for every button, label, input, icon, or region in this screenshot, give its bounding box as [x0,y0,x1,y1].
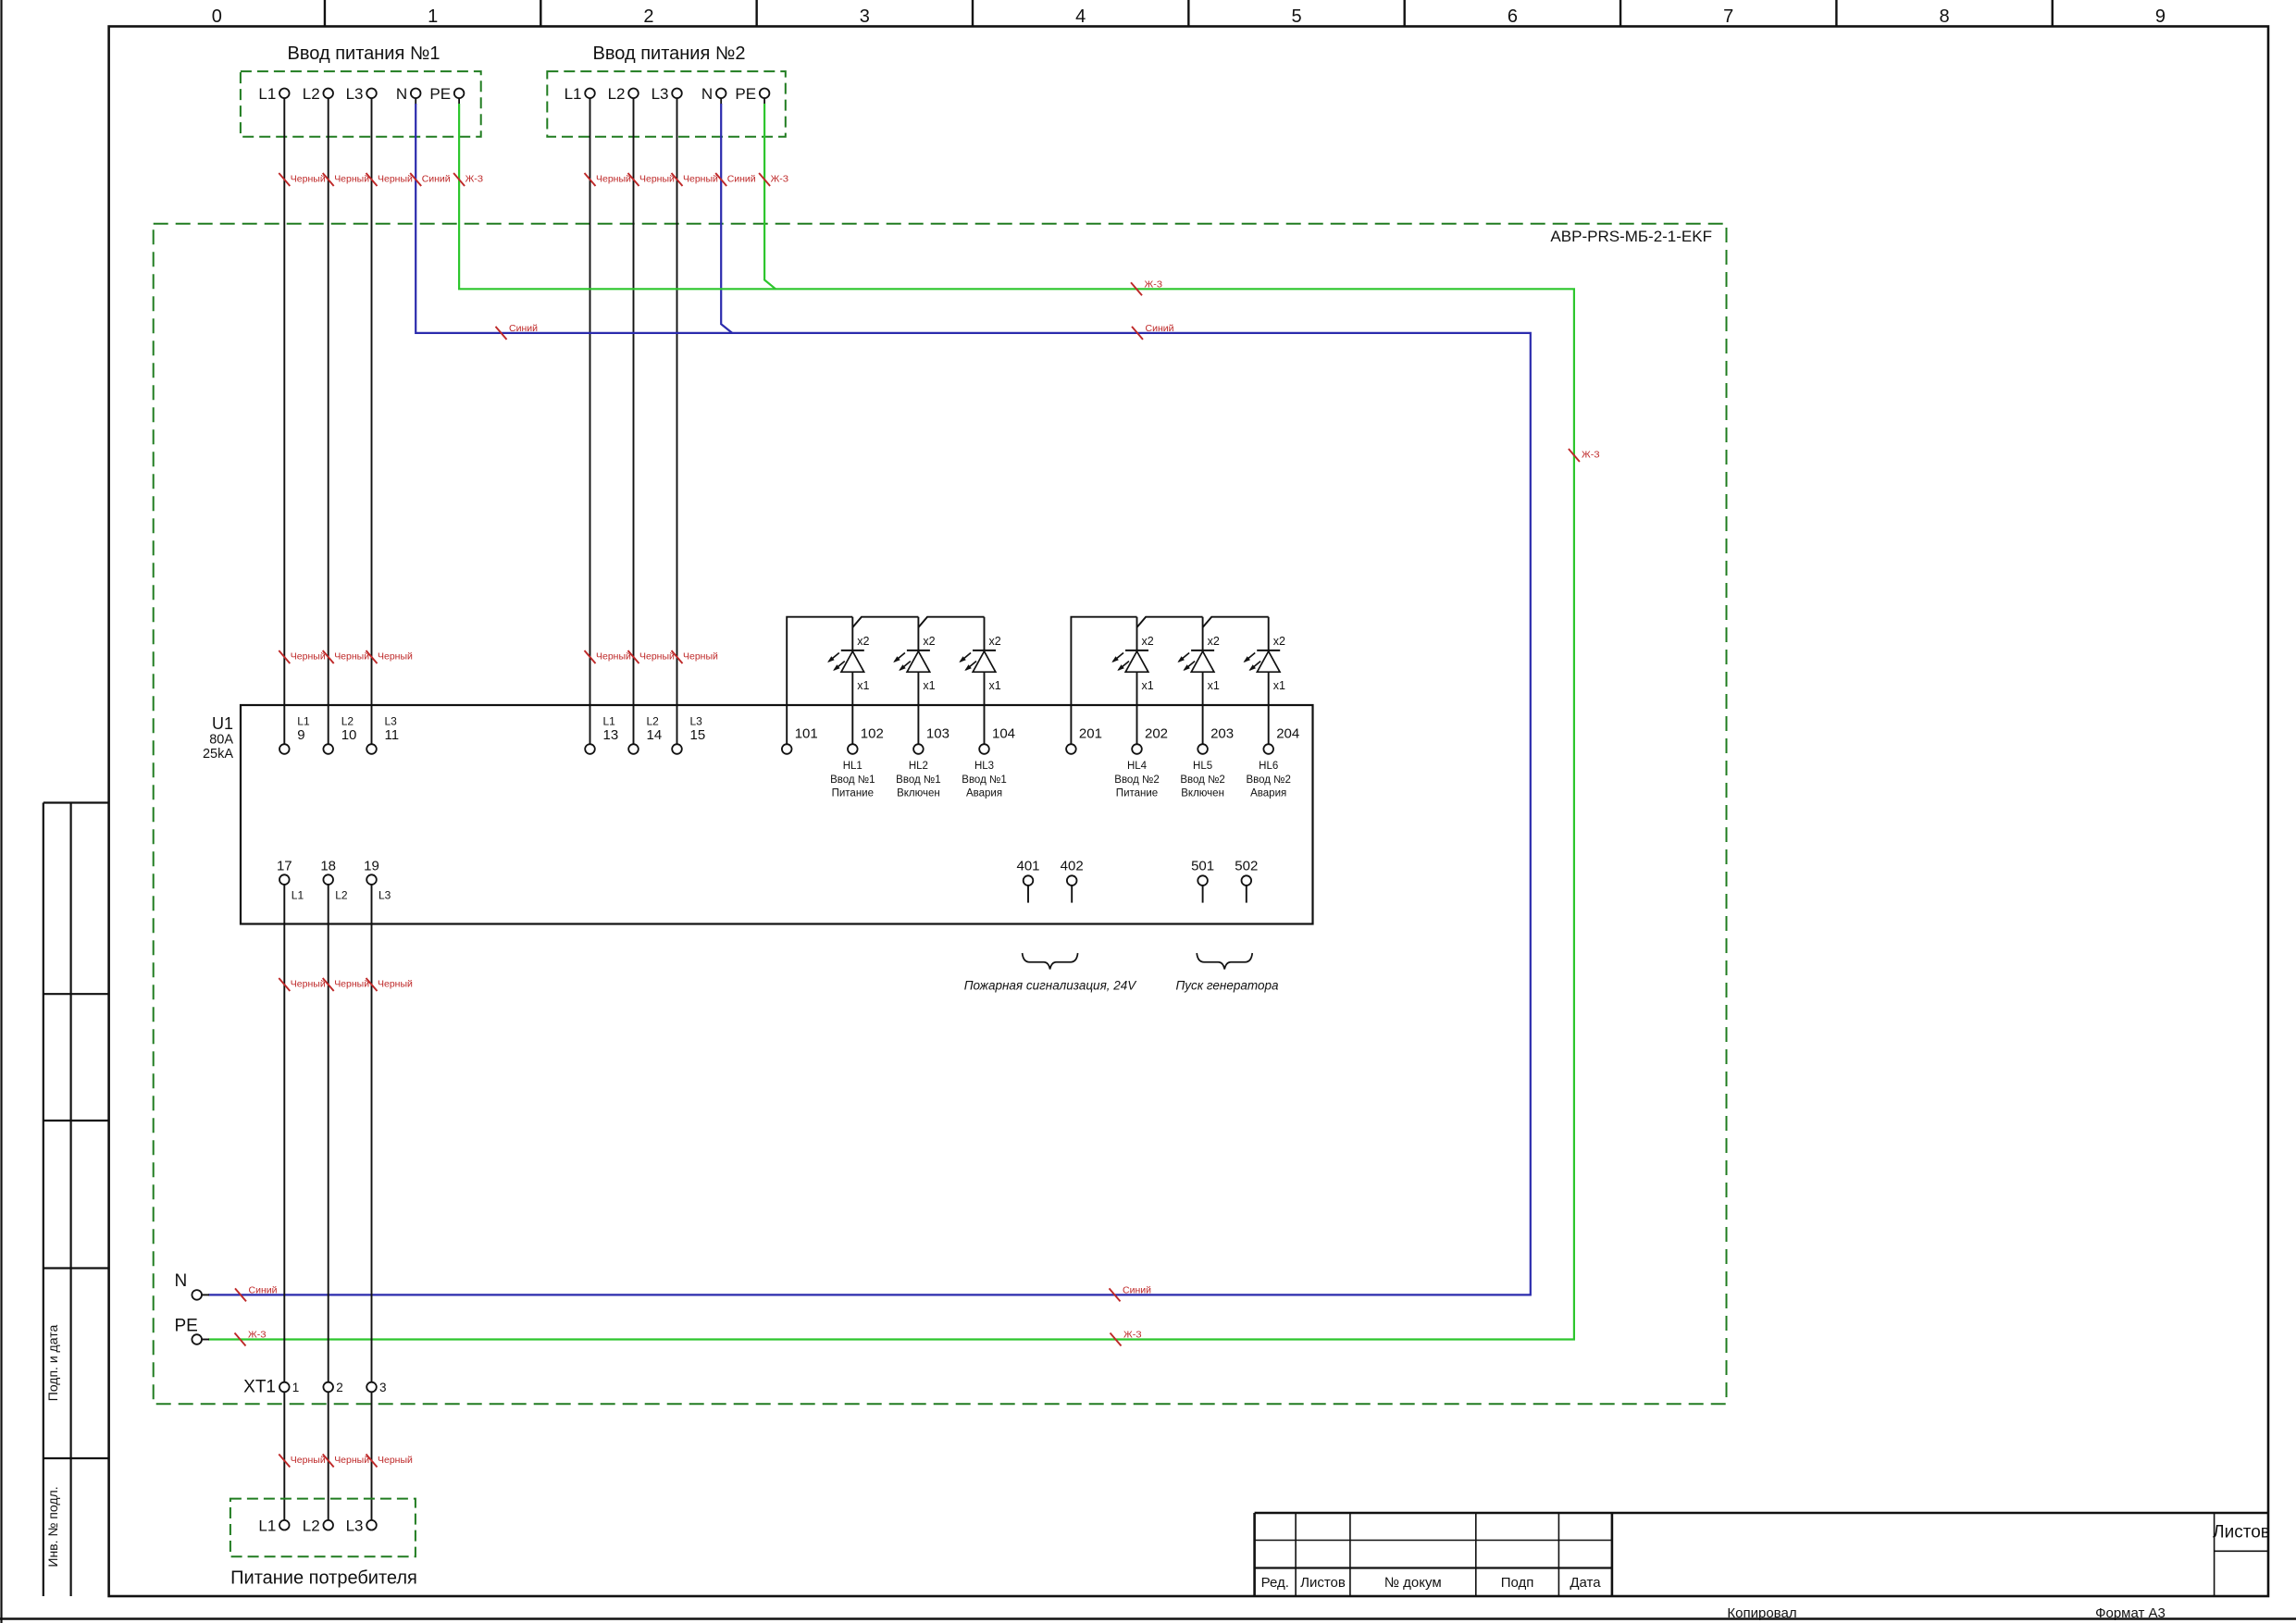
svg-text:Черный: Черный [596,174,631,185]
svg-text:Авария: Авария [966,788,1002,799]
svg-text:PE: PE [735,85,756,103]
brace under pins 401-402 [1023,953,1078,970]
node PE terminal [175,1317,203,1344]
svg-text:15: 15 [690,727,706,743]
svg-text:L2: L2 [303,1518,320,1535]
svg-text:Формат А3: Формат А3 [2095,1605,2166,1621]
brace under pins 501-502 [1197,953,1252,970]
svg-text:L3: L3 [652,85,669,103]
svg-text:Черный: Черный [683,174,718,185]
svg-text:Подп: Подп [1501,1575,1534,1591]
label HL3 text block [962,761,1006,799]
svg-text:XT1: XT1 [243,1378,276,1397]
device U1 box [241,705,1313,924]
dashed box Питание потребителя [230,1499,416,1557]
U1 pin 502 [1235,859,1258,903]
svg-text:9: 9 [297,727,304,743]
svg-text:1: 1 [428,6,438,27]
wire colour label Ж-З on PE bus top right [1131,279,1162,295]
svg-text:Черный: Черный [334,979,369,990]
U1 pin 104 [979,726,1015,754]
svg-text:L1: L1 [603,715,616,728]
svg-text:N: N [701,85,713,103]
U1 pin 101 [782,726,818,754]
U1 pin 9 (L1) [279,715,310,754]
U1 pin 204 [1263,726,1299,754]
wire input1 L3 black phase down to U1 [371,98,373,745]
page bottom edge line [0,1617,2296,1619]
svg-text:Черный: Черный [639,651,675,663]
black stub at N node terminal [202,1294,210,1295]
svg-text:L2: L2 [647,715,660,728]
svg-text:Черный: Черный [639,174,675,185]
black stub at PE node terminal [202,1339,210,1341]
LED HL3 indicator [959,617,1000,745]
svg-text:L1: L1 [258,1518,276,1535]
wire colour label Синий on N bus top right [1132,323,1174,340]
input 2 terminal L2 [608,85,639,103]
wire colour labels row under input 1 (Черный x3, Синий, Ж-З) [279,173,483,186]
svg-text:Синий: Синий [509,323,538,334]
svg-text:Включен: Включен [1181,788,1224,799]
svg-text:x2: x2 [1142,635,1154,648]
svg-text:Черный: Черный [291,651,326,663]
XT1 terminal 2 [323,1381,342,1394]
node 101 riser and LED feed bus group 1 [787,617,984,745]
svg-text:25kA: 25kA [203,747,233,762]
dashed enclosure АВР-PRS-МБ-2-1-EKF [154,224,1727,1404]
wire input2 L1 black phase down to U1 [590,98,591,745]
svg-text:Включен: Включен [897,788,940,799]
input 1 terminal L1 [258,85,289,103]
U1 pin 14 (L2) [628,715,662,754]
svg-text:5: 5 [1291,6,1301,27]
svg-text:Черный: Черный [378,1455,413,1466]
U1 pin 11 (L3) [366,715,399,754]
svg-text:Ввод №1: Ввод №1 [962,774,1006,786]
svg-text:14: 14 [647,727,663,743]
svg-text:Ж-З: Ж-З [248,1330,267,1341]
wire input1 N blue: down, right, down, left to N node [208,98,1531,1295]
svg-text:Черный: Черный [378,651,413,663]
svg-text:3: 3 [860,6,870,27]
svg-text:502: 502 [1235,859,1258,874]
svg-text:Ж-З: Ж-З [465,174,484,185]
svg-text:Ввод №2: Ввод №2 [1114,774,1159,786]
svg-text:6: 6 [1508,6,1518,27]
svg-text:x1: x1 [1208,679,1220,692]
svg-text:104: 104 [992,726,1015,742]
U1 pin 201 [1066,726,1102,754]
svg-text:№ докум: № докум [1384,1575,1442,1591]
wire output L1 from U1 to XT1 [283,884,285,1382]
svg-text:Черный: Черный [334,651,369,663]
svg-text:202: 202 [1145,726,1168,742]
svg-text:Ред.: Ред. [1261,1575,1289,1591]
consumer terminal L2 [303,1518,333,1535]
svg-text:L3: L3 [346,85,364,103]
label U1 80A 25kA [203,714,233,762]
consumer terminal L3 [346,1518,377,1535]
svg-text:Листов: Листов [2213,1523,2270,1542]
input 2 terminal PE [735,85,769,103]
svg-text:18: 18 [320,859,336,874]
svg-text:L2: L2 [341,715,354,728]
svg-text:PE: PE [175,1317,198,1336]
U1 pin 10 (L2) [323,715,356,754]
consumer terminal L1 [258,1518,289,1535]
U1 pin 501 [1191,859,1214,903]
svg-text:N: N [396,85,407,103]
U1 pin 203 [1198,726,1234,754]
wire colour labels row under input 2 (Черный x3, Синий, Ж-З) [585,173,789,186]
svg-text:1: 1 [292,1381,300,1394]
U1 pin 18 output [320,859,348,902]
node N terminal [175,1271,203,1300]
input 2 terminal N [701,85,726,103]
svg-text:Черный: Черный [683,651,718,663]
svg-text:19: 19 [364,859,379,874]
svg-text:201: 201 [1079,726,1102,742]
svg-text:Питание: Питание [1116,788,1158,799]
node 201 riser and LED feed bus group 2 [1071,617,1268,745]
wire colour labels Черный under U1 outputs [279,978,413,991]
U1 pin 103 [913,726,949,754]
svg-text:x2: x2 [923,635,935,648]
svg-text:9: 9 [2155,6,2166,27]
LED HL2 indicator [893,617,935,745]
svg-text:Синий: Синий [1146,323,1174,334]
svg-text:2: 2 [643,6,653,27]
svg-text:17: 17 [277,859,292,874]
svg-text:Пожарная сигнализация, 24V: Пожарная сигнализация, 24V [964,979,1138,993]
ruler column numbers 0-9 [212,6,2166,27]
svg-text:N: N [175,1271,188,1291]
svg-text:Синий: Синий [249,1284,278,1295]
svg-text:Черный: Черный [378,174,413,185]
svg-text:L3: L3 [379,889,391,902]
svg-text:Пуск генератора: Пуск генератора [1176,979,1279,993]
page left edge line [0,0,2,1623]
label HL5 text block [1180,761,1224,799]
LED HL5 indicator [1177,617,1219,745]
wire colour label Синий at N node [235,1284,278,1301]
svg-text:Черный: Черный [334,174,369,185]
svg-text:7: 7 [1723,6,1733,27]
svg-text:80A: 80A [209,733,233,748]
svg-text:Синий: Синий [727,174,756,185]
svg-text:Ввод питания №2: Ввод питания №2 [593,43,746,64]
input 1 terminal PE [429,85,464,103]
svg-text:U1: U1 [212,714,233,733]
wire colour label Ж-З on PE bus bottom [1111,1330,1142,1346]
label HL1 text block [830,761,875,799]
svg-text:x2: x2 [1273,635,1285,648]
svg-text:x2: x2 [989,635,1001,648]
svg-text:102: 102 [861,726,884,742]
U1 pin 202 [1132,726,1168,754]
wire input1 L2 black phase down to U1 [328,98,329,745]
LED HL4 indicator [1111,617,1153,745]
svg-text:Питание потребителя: Питание потребителя [230,1568,417,1589]
input 1 terminal L2 [303,85,333,103]
wire colour labels Черный under XT1 [279,1455,413,1468]
svg-text:L1: L1 [258,85,276,103]
svg-text:Ввод №1: Ввод №1 [830,774,875,786]
svg-text:L3: L3 [690,715,703,728]
label HL4 text block [1114,761,1159,799]
svg-text:203: 203 [1210,726,1234,742]
svg-text:Подп. и дата: Подп. и дата [45,1325,60,1402]
svg-text:HL1: HL1 [843,761,863,772]
U1 pin 401 [1016,859,1039,903]
svg-text:Питание: Питание [832,788,874,799]
svg-text:Ввод №1: Ввод №1 [896,774,940,786]
svg-text:103: 103 [926,726,949,742]
svg-text:Синий: Синий [1123,1284,1151,1295]
XT1 terminal 1 [279,1381,299,1394]
input 2 terminal L1 [565,85,595,103]
svg-text:L2: L2 [335,889,348,902]
wire XT1 L2 down to consumer box [328,1392,329,1521]
U1 pin 17 output [277,859,304,902]
label HL6 text block [1246,761,1290,799]
svg-text:HL4: HL4 [1127,761,1148,772]
svg-text:Копировал: Копировал [1727,1605,1796,1621]
svg-text:4: 4 [1075,6,1086,27]
svg-text:HL6: HL6 [1259,761,1278,772]
U1 pin 19 output [364,859,391,902]
U1 pin 15 (L3) [672,715,705,754]
svg-text:x2: x2 [1208,635,1220,648]
svg-text:Дата: Дата [1570,1575,1601,1591]
input 2 terminal L3 [652,85,682,103]
svg-text:2: 2 [336,1381,343,1394]
wire colour label Ж-З on PE vertical right [1569,449,1600,462]
svg-text:501: 501 [1191,859,1214,874]
wire colour labels Черный above U1 phase inputs 1 [279,650,413,663]
svg-text:3: 3 [379,1381,387,1394]
svg-text:L3: L3 [385,715,398,728]
svg-text:Черный: Черный [334,1455,369,1466]
svg-text:Ж-З: Ж-З [1582,450,1600,461]
svg-text:L2: L2 [303,85,320,103]
left margin stamp cells [43,803,109,1597]
svg-text:Синий: Синий [422,174,451,185]
svg-text:Черный: Черный [291,174,326,185]
svg-text:Черный: Черный [291,979,326,990]
svg-text:Черный: Черный [378,979,413,990]
ruler column ticks [325,0,2053,27]
dashed box Ввод питания №1 [241,71,481,137]
U1 pin 13 (L1) [585,715,618,754]
svg-text:Авария: Авария [1250,788,1286,799]
svg-text:Ввод питания №1: Ввод питания №1 [288,43,441,64]
wire colour labels Черный above U1 phase inputs 2 [585,650,719,663]
svg-text:Листов: Листов [1300,1575,1346,1591]
svg-text:HL3: HL3 [974,761,994,772]
svg-text:101: 101 [795,726,818,742]
input 1 terminal N [396,85,421,103]
svg-text:HL5: HL5 [1193,761,1212,772]
wire XT1 L3 down to consumer box [371,1392,373,1521]
svg-text:L1: L1 [297,715,310,728]
svg-text:10: 10 [341,727,357,743]
LED HL6 indicator [1244,617,1285,745]
title block grid [1255,1513,2268,1596]
svg-text:Инв. № подл.: Инв. № подл. [45,1486,60,1567]
svg-text:Ж-З: Ж-З [1145,279,1163,290]
svg-text:PE: PE [429,85,451,103]
svg-text:L1: L1 [565,85,582,103]
svg-text:L3: L3 [346,1518,364,1535]
wire input2 N blue with jog onto N bus [721,98,732,333]
wire output L3 from U1 to XT1 [371,884,373,1382]
svg-text:13: 13 [603,727,619,743]
svg-text:0: 0 [212,6,222,27]
svg-text:Ввод №2: Ввод №2 [1180,774,1224,786]
svg-text:HL2: HL2 [909,761,928,772]
svg-text:Черный: Черный [291,1455,326,1466]
input 1 terminal L3 [346,85,377,103]
wire colour label Синий on N bus near input [496,323,539,340]
svg-text:Ж-З: Ж-З [771,174,789,185]
svg-text:x1: x1 [989,679,1001,692]
U1 pin 102 [848,726,884,754]
LED HL1 indicator [827,617,869,745]
svg-text:x1: x1 [923,679,935,692]
dashed box Ввод питания №2 [547,71,786,137]
wire output L2 from U1 to XT1 [328,884,329,1382]
svg-text:204: 204 [1276,726,1299,742]
svg-text:402: 402 [1061,859,1084,874]
wire input2 PE green with jog onto PE bus [764,98,776,290]
svg-text:L2: L2 [608,85,626,103]
svg-text:АВР-PRS-МБ-2-1-EKF: АВР-PRS-МБ-2-1-EKF [1550,228,1712,245]
wire input2 L3 black phase down to U1 [676,98,678,745]
svg-text:Ввод №2: Ввод №2 [1246,774,1290,786]
svg-text:x1: x1 [857,679,869,692]
svg-text:x2: x2 [857,635,869,648]
svg-text:L1: L1 [292,889,304,902]
wire XT1 L1 down to consumer box [283,1392,285,1521]
svg-text:401: 401 [1016,859,1039,874]
wire colour label Синий on N bus bottom [1110,1284,1152,1301]
svg-text:x1: x1 [1142,679,1154,692]
wire input1 PE green: down, right, down, left to PE node [208,98,1574,1340]
U1 pin 402 [1061,859,1084,903]
wire input1 L1 black phase down to U1 [283,98,285,745]
svg-text:Ж-З: Ж-З [1123,1330,1142,1341]
XT1 terminal 3 [366,1381,386,1394]
svg-text:8: 8 [1940,6,1950,27]
wire input2 L2 black phase down to U1 [633,98,635,745]
svg-text:11: 11 [385,727,400,743]
wire colour label Ж-З at PE node [235,1330,267,1346]
label HL2 text block [896,761,940,799]
svg-text:x1: x1 [1273,679,1285,692]
svg-text:Черный: Черный [596,651,631,663]
